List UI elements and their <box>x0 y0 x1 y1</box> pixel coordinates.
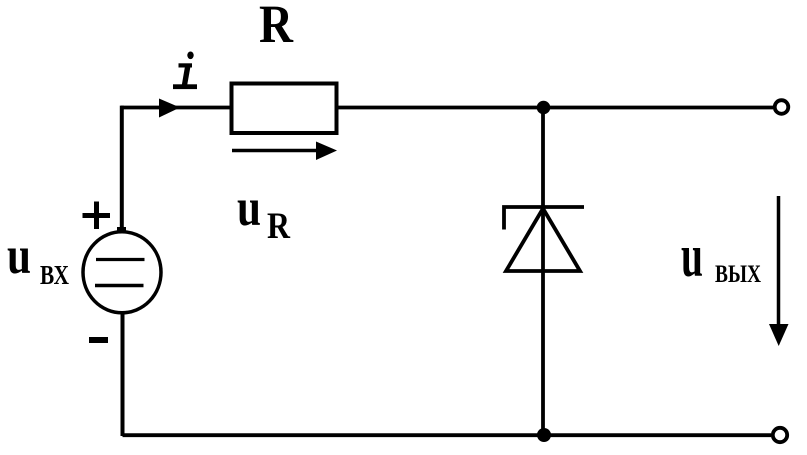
svg-text:u: u <box>7 227 31 285</box>
svg-text:R: R <box>267 206 291 247</box>
svg-text:ВЫХ: ВЫХ <box>715 261 761 288</box>
svg-text:R: R <box>259 0 294 54</box>
svg-text:u: u <box>237 179 261 237</box>
svg-text:u: u <box>681 223 703 289</box>
svg-text:ВХ: ВХ <box>40 260 69 290</box>
